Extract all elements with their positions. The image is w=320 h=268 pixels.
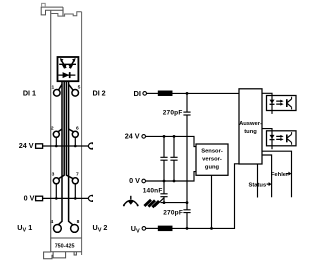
svg-text:versor-: versor- [202,157,222,163]
svg-text:tung: tung [244,129,257,135]
svg-text:24 V: 24 V [19,141,34,150]
svg-text:0 V: 0 V [24,194,35,203]
svg-text:140nF: 140nF [143,187,163,194]
svg-text:UV 2: UV 2 [93,223,108,234]
svg-text:2: 2 [51,125,54,131]
svg-text:750-425: 750-425 [55,243,75,249]
svg-text:7: 7 [76,171,79,177]
svg-text:gung: gung [205,165,220,171]
svg-text:1: 1 [51,84,54,90]
svg-text:UV 1: UV 1 [17,223,32,234]
svg-text:DI: DI [134,89,142,98]
svg-text:0 V: 0 V [129,176,140,185]
svg-text:4: 4 [50,219,53,225]
svg-text:3: 3 [52,171,55,177]
svg-text:DI 2: DI 2 [93,89,106,98]
svg-text:5: 5 [78,84,81,90]
svg-text:Fehler: Fehler [271,172,289,178]
svg-text:UV: UV [131,224,140,235]
svg-text:270pF: 270pF [163,110,183,117]
svg-text:8: 8 [77,219,80,225]
svg-text:Auswer-: Auswer- [239,121,262,127]
svg-text:DI 1: DI 1 [23,89,36,98]
svg-text:Status: Status [248,183,266,189]
svg-text:24 V: 24 V [125,132,140,141]
svg-text:6: 6 [76,125,79,131]
svg-text:270pF: 270pF [163,210,183,217]
svg-text:Sensor-: Sensor- [201,149,223,155]
